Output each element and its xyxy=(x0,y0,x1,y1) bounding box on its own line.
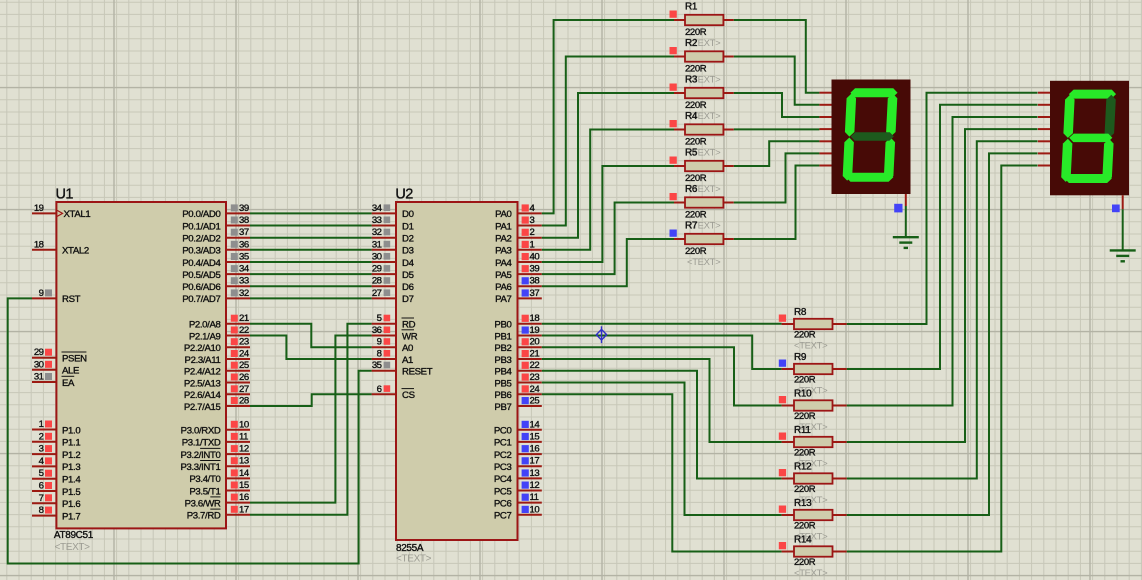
origin marker on PB1 wire xyxy=(596,326,606,343)
svg-text:PC4: PC4 xyxy=(494,474,513,485)
DS1 segment pin b stub xyxy=(819,104,831,106)
R5 value label 220R xyxy=(685,173,707,184)
svg-text:XTAL1: XTAL1 xyxy=(64,209,91,220)
U2 pin 21 PB3 xyxy=(494,349,541,366)
U2 pin 1 PA3 xyxy=(495,239,542,256)
svg-text:31: 31 xyxy=(34,372,44,383)
svg-text:R4: R4 xyxy=(685,111,698,122)
U2 pin 16 PC2 xyxy=(494,444,542,461)
U2 value label 8255A xyxy=(396,543,424,554)
svg-text:PA4: PA4 xyxy=(495,258,512,269)
U1 pin 32 P0.7/AD7 xyxy=(182,288,250,305)
svg-text:R13: R13 xyxy=(794,498,812,509)
svg-text:35: 35 xyxy=(239,252,249,263)
resistor R13 220R xyxy=(779,506,847,521)
DS2 segment e (on) xyxy=(1061,139,1073,182)
U2 <TEXT> placeholder xyxy=(396,554,432,565)
svg-text:32: 32 xyxy=(239,288,249,299)
svg-text:D2: D2 xyxy=(402,234,414,245)
wire P0.4 bus U1 to U2 D4 xyxy=(250,261,372,263)
U1 pin 3 P1.2 xyxy=(32,444,80,461)
svg-text:P0.1/AD1: P0.1/AD1 xyxy=(182,221,220,232)
svg-text:U2: U2 xyxy=(395,187,413,203)
R11 <TEXT> placeholder xyxy=(794,459,828,470)
R9 reference label xyxy=(794,352,807,363)
DS1 segment e (on) xyxy=(842,138,854,181)
U2 pin 13 PC4 xyxy=(494,468,542,485)
svg-text:2: 2 xyxy=(530,227,535,238)
svg-text:39: 39 xyxy=(530,264,540,275)
U2 pin 37 PA7 xyxy=(495,288,542,305)
svg-text:PB0: PB0 xyxy=(494,320,511,331)
R4 value label 220R xyxy=(685,137,707,148)
R11 reference label xyxy=(794,425,811,436)
R7 reference label xyxy=(685,221,698,232)
wire P3.6 to WR xyxy=(250,336,372,503)
svg-text:24: 24 xyxy=(239,349,250,360)
U2 pin 24 PB6 xyxy=(494,384,541,401)
DS2 segment pin f stub xyxy=(1038,152,1050,154)
U2 pin 31 D3 xyxy=(372,239,414,256)
svg-text:<TEXT>: <TEXT> xyxy=(687,257,721,268)
svg-text:P2.0/A8: P2.0/A8 xyxy=(189,320,221,331)
svg-text:220R: 220R xyxy=(794,375,816,386)
wire PA2 to R3 xyxy=(542,93,674,238)
svg-text:31: 31 xyxy=(372,239,382,250)
U1 pin 31 EA xyxy=(32,372,75,389)
U1 pin 23 P2.2/A10 xyxy=(184,337,250,354)
R7 <TEXT> placeholder xyxy=(687,257,721,268)
wire R13 to DS2 segment f xyxy=(847,153,1038,515)
DS1 segment pin d stub xyxy=(819,128,831,130)
wire PA6 to R7 xyxy=(542,239,674,286)
wire PA4 to R5 xyxy=(542,166,674,262)
U2 pin 6 CS xyxy=(372,384,415,401)
DS2 common cathode pin xyxy=(1112,195,1123,212)
U2 pin 18 PB0 xyxy=(494,313,541,330)
svg-text:A0: A0 xyxy=(402,343,413,354)
wire R10 to DS2 segment c xyxy=(847,117,1038,406)
svg-text:P0.3/AD3: P0.3/AD3 xyxy=(182,246,220,257)
U1 pin 17 P3.7/RD xyxy=(187,504,250,521)
U1 pin 35 P0.4/AD4 xyxy=(182,252,250,269)
U2 pin 14 PC0 xyxy=(494,419,542,436)
svg-text:PB1: PB1 xyxy=(494,331,511,342)
U2 pin 28 D6 xyxy=(372,276,414,293)
svg-text:3: 3 xyxy=(530,215,535,226)
svg-text:3: 3 xyxy=(39,444,44,455)
U2 pin 32 D2 xyxy=(372,227,414,244)
svg-text:PC7: PC7 xyxy=(494,511,512,522)
wire PB4 to R12 xyxy=(542,371,782,479)
svg-text:PC0: PC0 xyxy=(494,426,512,437)
svg-text:25: 25 xyxy=(239,360,249,371)
DS1 segment f (on) xyxy=(845,94,857,137)
wire P2.7 to CS xyxy=(250,394,372,406)
DS2 segment pin g stub xyxy=(1038,165,1050,167)
R11 value label 220R xyxy=(794,448,816,459)
svg-text:26: 26 xyxy=(239,372,249,383)
U2 pin 12 PC5 xyxy=(494,480,542,497)
wire R8 to DS2 segment a xyxy=(847,93,1038,324)
resistor R3 220R xyxy=(670,84,734,99)
U1 value label AT89C51 xyxy=(54,530,94,541)
R6 reference label xyxy=(685,184,698,195)
R1 reference label xyxy=(685,2,698,13)
svg-text:P1.7: P1.7 xyxy=(62,511,80,522)
resistor R1 220R xyxy=(670,11,734,26)
svg-text:220R: 220R xyxy=(685,27,707,38)
svg-text:11: 11 xyxy=(530,492,539,503)
wire R5 to DS1 segment e xyxy=(734,141,820,166)
wire P0.2 bus U1 to U2 D2 xyxy=(250,237,372,239)
U2 pin 22 PB4 xyxy=(494,360,541,377)
svg-text:22: 22 xyxy=(530,360,540,371)
U2 pin 11 PC6 xyxy=(494,492,542,509)
svg-text:AT89C51: AT89C51 xyxy=(54,530,94,541)
svg-text:<TEXT>: <TEXT> xyxy=(396,554,432,565)
svg-text:PB3: PB3 xyxy=(494,355,511,366)
svg-text:D7: D7 xyxy=(402,294,414,305)
svg-text:P0.4/AD4: P0.4/AD4 xyxy=(182,258,221,269)
wire R1 to DS1 segment a xyxy=(734,20,820,93)
svg-text:PB7: PB7 xyxy=(494,402,511,413)
svg-text:P2.7/A15: P2.7/A15 xyxy=(184,402,221,413)
svg-text:9: 9 xyxy=(39,288,44,299)
wire PB6 to R14 xyxy=(542,394,782,551)
svg-text:34: 34 xyxy=(372,203,383,214)
svg-text:35: 35 xyxy=(372,360,382,371)
wire P0.1 bus U1 to U2 D1 xyxy=(250,225,372,227)
svg-text:37: 37 xyxy=(239,227,249,238)
svg-text:29: 29 xyxy=(34,347,44,358)
wire P0.6 bus U1 to U2 D6 xyxy=(250,285,372,287)
R1 value label 220R xyxy=(685,27,707,38)
U1 pin 8 P1.7 xyxy=(32,505,80,522)
DS2 segment pin e stub xyxy=(1038,140,1050,142)
svg-text:P3.2/INT0: P3.2/INT0 xyxy=(180,450,220,461)
svg-text:40: 40 xyxy=(530,252,540,263)
svg-text:30: 30 xyxy=(372,252,382,263)
U2 pin 38 PA6 xyxy=(495,276,542,293)
svg-text:17: 17 xyxy=(239,504,249,515)
wire P2.1 to A1 xyxy=(250,336,372,360)
R1 <TEXT> placeholder xyxy=(687,38,721,49)
svg-text:P0.0/AD0: P0.0/AD0 xyxy=(182,209,220,220)
IC U2 body (8255A) xyxy=(396,202,518,540)
wire R11 to DS2 segment d xyxy=(847,129,1038,442)
svg-text:1: 1 xyxy=(530,239,535,250)
R14 value label 220R xyxy=(794,557,816,568)
wire PA5 to R6 xyxy=(542,203,674,275)
svg-text:29: 29 xyxy=(372,264,382,275)
svg-text:13: 13 xyxy=(239,456,249,467)
svg-text:P3.1/TXD: P3.1/TXD xyxy=(182,438,221,449)
svg-text:PC5: PC5 xyxy=(494,486,512,497)
DS1 segment g (off) xyxy=(850,132,894,141)
R10 value label 220R xyxy=(794,411,816,422)
U1 pin 1 P1.0 xyxy=(32,419,80,436)
DS1 segment a (on) xyxy=(850,88,898,97)
svg-text:PA7: PA7 xyxy=(495,294,511,305)
U2 pin 17 PC3 xyxy=(494,456,542,473)
U2 pin 19 PB1 xyxy=(494,325,541,342)
svg-text:RD: RD xyxy=(402,320,416,331)
U1 pin 14 P3.4/T0 xyxy=(189,468,250,485)
U2 pin 8 A1 xyxy=(372,349,413,366)
svg-text:30: 30 xyxy=(34,359,44,370)
svg-text:P3.3/INT1: P3.3/INT1 xyxy=(180,462,220,473)
U1 pin 26 P2.5/A13 xyxy=(184,372,250,389)
IC U1 body (AT89C51) xyxy=(56,202,226,528)
R2 <TEXT> placeholder xyxy=(687,75,721,86)
U1 pin 38 P0.1/AD1 xyxy=(182,215,250,232)
svg-text:220R: 220R xyxy=(685,246,707,257)
svg-text:PB4: PB4 xyxy=(494,367,512,378)
wire P0.3 bus U1 to U2 D3 xyxy=(250,249,372,251)
U1 pin 15 P3.5/T1 xyxy=(189,480,250,497)
svg-text:5: 5 xyxy=(377,313,382,324)
svg-text:10: 10 xyxy=(239,419,249,430)
U1 pin 29 PSEN xyxy=(32,347,87,364)
svg-text:P3.5/T1: P3.5/T1 xyxy=(189,486,220,497)
svg-text:D5: D5 xyxy=(402,270,414,281)
svg-text:<TEXT>: <TEXT> xyxy=(794,568,828,579)
U1 pin 4 P1.3 xyxy=(32,456,80,473)
R8 <TEXT> placeholder xyxy=(794,341,828,352)
wire R12 to DS2 segment e xyxy=(847,141,1038,478)
resistor R10 220R xyxy=(779,396,847,411)
resistor R8 220R xyxy=(779,315,847,330)
svg-text:220R: 220R xyxy=(685,100,707,111)
svg-text:220R: 220R xyxy=(685,137,707,148)
svg-text:6: 6 xyxy=(377,384,382,395)
svg-text:P2.2/A10: P2.2/A10 xyxy=(184,343,221,354)
DS1 common cathode pin xyxy=(894,194,906,212)
svg-text:<TEXT>: <TEXT> xyxy=(55,542,91,553)
svg-text:PA6: PA6 xyxy=(495,282,511,293)
svg-text:R1: R1 xyxy=(685,2,698,13)
svg-text:R7: R7 xyxy=(685,221,698,232)
R9 <TEXT> placeholder xyxy=(794,386,828,397)
svg-text:R2: R2 xyxy=(685,38,698,49)
wire R2 to DS1 segment b xyxy=(734,57,820,105)
U1 pin 6 P1.5 xyxy=(32,481,80,498)
svg-text:PA5: PA5 xyxy=(495,270,511,281)
resistor R4 220R xyxy=(670,120,734,135)
DS1 segment pin c stub xyxy=(819,116,831,118)
U1 pin 30 ALE xyxy=(32,359,79,376)
svg-text:220R: 220R xyxy=(794,484,816,495)
svg-text:P1.1: P1.1 xyxy=(62,438,80,449)
U1 <TEXT> placeholder xyxy=(55,542,91,553)
U1 pin 13 P3.3/INT1 xyxy=(180,456,250,473)
U1 pin 34 P0.5/AD5 xyxy=(182,264,250,281)
svg-text:PA1: PA1 xyxy=(495,221,511,232)
wire PB5 to R13 xyxy=(542,383,782,516)
U1 pin 9 RST xyxy=(32,288,81,305)
U1 pin 12 P3.2/INT0 xyxy=(180,444,250,461)
svg-text:P0.2/AD2: P0.2/AD2 xyxy=(182,234,220,245)
U1 pin 39 P0.0/AD0 xyxy=(182,203,250,220)
DS2 segment pin d stub xyxy=(1038,128,1050,130)
U2 pin 36 WR xyxy=(372,325,418,342)
wire PA3 to R4 xyxy=(542,130,674,250)
svg-text:15: 15 xyxy=(530,431,540,442)
svg-text:RESET: RESET xyxy=(402,367,433,378)
R9 value label 220R xyxy=(794,375,816,386)
svg-text:U1: U1 xyxy=(56,187,74,203)
svg-text:P1.4: P1.4 xyxy=(62,475,81,486)
DS1 segment d (on) xyxy=(846,173,894,182)
svg-text:16: 16 xyxy=(239,492,249,503)
U1 pin 28 P2.7/A15 xyxy=(184,396,250,413)
R8 value label 220R xyxy=(794,330,816,341)
svg-text:R10: R10 xyxy=(794,389,812,400)
resistor R7 220R xyxy=(670,230,734,245)
U2 pin 5 RD xyxy=(372,313,416,330)
svg-text:ALE: ALE xyxy=(62,366,79,377)
svg-text:38: 38 xyxy=(530,276,540,287)
svg-text:PC2: PC2 xyxy=(494,450,512,461)
svg-text:P0.6/AD6: P0.6/AD6 xyxy=(182,282,220,293)
resistor R14 220R xyxy=(779,542,847,557)
svg-text:P3.4/T0: P3.4/T0 xyxy=(189,474,220,485)
R3 <TEXT> placeholder xyxy=(687,111,721,122)
svg-text:R5: R5 xyxy=(685,148,698,159)
svg-text:19: 19 xyxy=(34,203,44,214)
svg-text:220R: 220R xyxy=(794,557,816,568)
R5 reference label xyxy=(685,148,698,159)
R13 value label 220R xyxy=(794,521,816,532)
svg-text:24: 24 xyxy=(530,384,541,395)
svg-text:D0: D0 xyxy=(402,209,414,220)
svg-text:9: 9 xyxy=(377,337,382,348)
R7 value label 220R xyxy=(685,246,707,257)
svg-text:38: 38 xyxy=(239,215,249,226)
svg-text:2: 2 xyxy=(39,431,44,442)
U1 pin 7 P1.6 xyxy=(32,493,80,510)
svg-text:27: 27 xyxy=(372,288,382,299)
U2 pin 40 PA4 xyxy=(495,252,542,269)
svg-text:P2.3/A11: P2.3/A11 xyxy=(185,355,221,366)
svg-text:P3.6/WR: P3.6/WR xyxy=(185,498,221,509)
wire PB1 to R9 xyxy=(542,336,782,370)
U2 pin 10 PC7 xyxy=(494,504,542,521)
svg-text:R8: R8 xyxy=(794,307,807,318)
U1 reference label xyxy=(56,187,74,203)
U1 pin 24 P2.3/A11 xyxy=(185,349,250,366)
U2 pin 29 D5 xyxy=(372,264,414,281)
wire P0.7 bus U1 to U2 D7 xyxy=(250,297,372,299)
svg-text:15: 15 xyxy=(239,480,249,491)
R4 reference label xyxy=(685,111,698,122)
svg-text:D4: D4 xyxy=(402,258,415,269)
svg-text:P0.7/AD7: P0.7/AD7 xyxy=(182,294,220,305)
U2 pin 27 D7 xyxy=(372,288,414,305)
U2 pin 4 PA0 xyxy=(495,203,542,220)
R5 <TEXT> placeholder xyxy=(687,184,721,195)
svg-text:PSEN: PSEN xyxy=(62,354,87,365)
U2 pin 34 D0 xyxy=(372,203,414,220)
ground symbol (DS2) xyxy=(1110,250,1136,261)
U1 pin 27 P2.6/A14 xyxy=(184,384,250,401)
7-segment display DS2 body xyxy=(1050,81,1129,196)
svg-text:P1.2: P1.2 xyxy=(62,450,80,461)
DS2 segment pin a stub xyxy=(1038,92,1050,94)
DS1 segment b (on) xyxy=(886,94,898,137)
wire PB3 to R11 xyxy=(542,359,782,442)
svg-text:1: 1 xyxy=(39,419,44,430)
U1 pin 5 P1.4 xyxy=(32,468,81,485)
svg-text:8255A: 8255A xyxy=(396,543,424,554)
wire P2.0 to A0 xyxy=(250,324,372,348)
R14 reference label xyxy=(794,535,812,546)
wire P0.0 bus U1 to U2 D0 xyxy=(250,212,372,214)
svg-text:18: 18 xyxy=(34,239,44,250)
DS2 segment a (on) xyxy=(1069,90,1117,99)
svg-text:34: 34 xyxy=(239,264,250,275)
R6 value label 220R xyxy=(685,210,707,221)
svg-text:XTAL2: XTAL2 xyxy=(62,246,89,257)
svg-text:220R: 220R xyxy=(794,521,816,532)
svg-text:20: 20 xyxy=(530,337,540,348)
svg-text:32: 32 xyxy=(372,227,382,238)
svg-text:25: 25 xyxy=(530,396,540,407)
svg-text:12: 12 xyxy=(239,444,249,455)
resistor R6 220R xyxy=(670,193,734,208)
svg-text:P2.4/A12: P2.4/A12 xyxy=(184,367,221,378)
svg-text:P3.7/RD: P3.7/RD xyxy=(187,511,221,522)
DS2 segment b (off) xyxy=(1104,95,1116,138)
wire DS1 common to ground xyxy=(905,206,907,237)
svg-text:R12: R12 xyxy=(794,462,812,473)
U2 pin 15 PC1 xyxy=(494,431,542,448)
svg-text:220R: 220R xyxy=(685,173,707,184)
U2 reference label xyxy=(395,187,413,203)
svg-text:28: 28 xyxy=(372,276,382,287)
DS2 segment g (on) xyxy=(1069,134,1113,143)
svg-text:D6: D6 xyxy=(402,282,414,293)
svg-text:37: 37 xyxy=(530,288,540,299)
svg-text:PA3: PA3 xyxy=(495,246,511,257)
svg-text:23: 23 xyxy=(530,372,540,383)
svg-text:P2.6/A14: P2.6/A14 xyxy=(184,390,222,401)
wire RST to U2 RESET (via bottom) xyxy=(8,298,372,563)
wire P3.7 to RD xyxy=(250,324,372,515)
R2 value label 220R xyxy=(685,64,707,75)
wire R4 to DS1 segment d xyxy=(734,128,820,130)
svg-text:PA0: PA0 xyxy=(495,209,511,220)
wire DS2 common to ground xyxy=(1122,209,1124,250)
R14 <TEXT> placeholder xyxy=(794,568,828,579)
svg-text:220R: 220R xyxy=(794,411,816,422)
U1 pin 11 P3.1/TXD xyxy=(182,431,250,448)
R2 reference label xyxy=(685,38,698,49)
R6 <TEXT> placeholder xyxy=(687,221,721,232)
svg-text:14: 14 xyxy=(239,468,250,479)
svg-text:21: 21 xyxy=(530,349,540,360)
svg-text:36: 36 xyxy=(372,325,382,336)
svg-text:R6: R6 xyxy=(685,184,698,195)
U1 pin 22 P2.1/A9 xyxy=(189,325,250,342)
U2 pin 3 PA1 xyxy=(495,215,542,232)
svg-text:R9: R9 xyxy=(794,352,807,363)
DS2 segment pin b stub xyxy=(1038,104,1050,106)
svg-text:36: 36 xyxy=(239,239,249,250)
U2 pin 25 PB7 xyxy=(494,396,541,413)
svg-text:220R: 220R xyxy=(685,210,707,221)
